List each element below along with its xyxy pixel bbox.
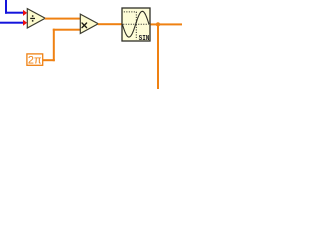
wire orange multiply output to sine input xyxy=(98,23,123,25)
sine icon waveform curve xyxy=(122,11,149,37)
divide symbol xyxy=(30,15,35,21)
wire junction dot xyxy=(156,22,160,26)
svg-text:SIN: SIN xyxy=(139,35,150,43)
multiply symbol xyxy=(82,23,87,28)
wire orange stub from 2pi constant xyxy=(43,59,55,61)
sine icon dotted vertical line xyxy=(135,12,137,40)
wire orange divide output to multiply top input xyxy=(45,18,80,20)
wire blue horizontal to divide top input xyxy=(5,12,24,14)
sine function icon frame xyxy=(122,8,150,41)
wire orange horizontal to multiply bottom input xyxy=(53,29,80,31)
wire orange sine output to right edge xyxy=(151,23,183,25)
wire orange vertical riser xyxy=(53,29,55,62)
coercion arrow on divide bottom input xyxy=(23,20,27,26)
wire orange vertical drop to bottom edge xyxy=(157,24,159,89)
sine icon dotted amplitude line xyxy=(124,11,137,13)
divide node U1 triangle xyxy=(27,9,45,28)
coercion arrow on divide top input xyxy=(23,10,27,16)
multiply node U2 triangle xyxy=(80,14,98,33)
constant 2pi box xyxy=(27,54,43,65)
wire blue vertical input xyxy=(5,0,7,14)
sine icon dotted axis line xyxy=(123,23,149,25)
svg-text:2π: 2π xyxy=(28,55,42,67)
wire blue horizontal to divide bottom input xyxy=(0,22,24,24)
